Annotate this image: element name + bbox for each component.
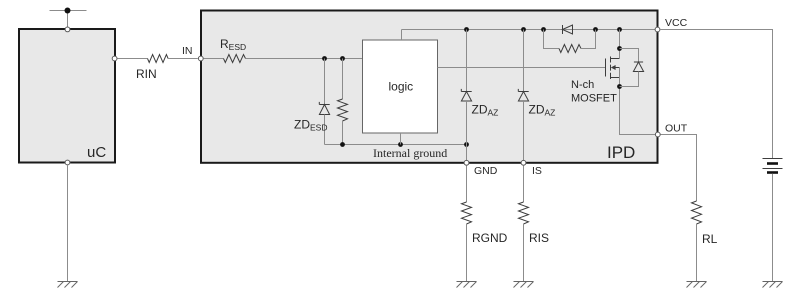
uC box (19, 29, 115, 163)
svg-text:OUT: OUT (665, 123, 688, 135)
junction dot rail / ZD_AZ 1 (464, 27, 469, 32)
svg-text:RGND: RGND (472, 231, 508, 245)
zener ZD_AZ 1 (461, 30, 471, 161)
resistor (parallel with D1) (544, 30, 596, 53)
wire RIS to ground (523, 224, 525, 282)
wire RIN to IPD IN pin (168, 58, 198, 60)
power rail (top-left) (50, 11, 87, 28)
resistor RIN (148, 55, 169, 63)
ground (RIS) (514, 282, 534, 288)
IPD box (201, 11, 658, 163)
ground (uC) (58, 282, 78, 288)
svg-text:logic: logic (389, 80, 414, 94)
wire GND pin to RGND (466, 166, 468, 203)
pin circle uC top (65, 27, 70, 32)
wire internal VCC rail (402, 29, 656, 31)
pin circle uC bottom (65, 160, 70, 165)
logic block U1 (363, 40, 438, 133)
pin circle IN (198, 56, 203, 61)
junction dot node B (340, 56, 345, 61)
zener ZD_ESD (319, 59, 329, 145)
wire logic bottom stub (400, 133, 402, 145)
svg-text:Internal ground: Internal ground (373, 146, 447, 160)
resistor (internal pull-down) (338, 59, 348, 145)
svg-text:IN: IN (182, 45, 193, 57)
junction dot rail / MOSFET drain (617, 27, 622, 32)
resistor R_ESD (224, 55, 246, 63)
junction dot drain / body diode (617, 46, 622, 51)
ground (battery) (763, 282, 783, 288)
junction dot rail / ZD_AZ 2 (521, 27, 526, 32)
body diode D2 (620, 49, 644, 87)
wire IS pin to RIS (523, 166, 525, 203)
svg-text:IPD: IPD (607, 143, 635, 162)
pin circle OUT (655, 132, 660, 137)
pin circle GND (464, 160, 469, 165)
wire uC bottom to ground (67, 165, 69, 281)
wire battery to ground (772, 174, 774, 282)
wire logic top stub (401, 30, 403, 41)
internal ground wire (325, 144, 467, 146)
junction dot on power rail (65, 8, 71, 14)
svg-text:N-ch: N-ch (571, 79, 594, 91)
svg-text:RIN: RIN (136, 67, 157, 81)
junction dot node A (322, 56, 327, 61)
svg-text:IS: IS (532, 165, 542, 177)
pin circle IS (521, 160, 526, 165)
transistor Q1 N-ch MOSFET (606, 57, 620, 80)
svg-text:uC: uC (87, 144, 106, 161)
wire RL to ground (696, 224, 698, 282)
resistor RL (692, 201, 702, 224)
zener ZD_AZ 2 (518, 30, 528, 161)
svg-text:GND: GND (474, 165, 498, 177)
svg-text:RL: RL (702, 232, 718, 246)
wire uC right pin to RIN (117, 58, 147, 60)
wire MOSFET source down (620, 68, 656, 135)
resistor RIS (519, 202, 529, 224)
svg-text:VCC: VCC (665, 17, 688, 29)
ground (RGND) (457, 282, 477, 288)
ground (RL) (687, 282, 707, 288)
junction dot internal ground / GND line (464, 142, 469, 147)
battery BT1 (763, 159, 783, 173)
junction dot rail / parallel-R left (541, 27, 546, 32)
wire IN pin to R_ESD (204, 58, 224, 60)
wire gate (logic to MOSFET) (438, 67, 606, 69)
svg-text:RIS: RIS (529, 231, 549, 245)
svg-text:MOSFET: MOSFET (571, 93, 617, 105)
junction dot source / body diode (617, 84, 622, 89)
resistor RGND (462, 202, 472, 224)
diode D1 (gate charge, on rail) (563, 25, 573, 34)
junction dot internal ground / logic (398, 142, 403, 147)
wire R_ESD to logic (246, 58, 363, 60)
pin circle VCC (655, 27, 660, 32)
junction dot rail / parallel-R right (593, 27, 598, 32)
wire OUT to RL (661, 135, 697, 202)
wire RGND to ground (466, 224, 468, 282)
wire MOSFET drain to rail (619, 30, 621, 59)
pin circle uC right (112, 56, 117, 61)
wire VCC to battery (660, 30, 772, 159)
junction dot internal ground / resistor (340, 142, 345, 147)
